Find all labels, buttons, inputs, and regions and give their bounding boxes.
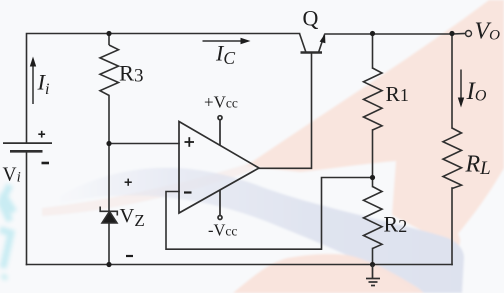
wire left column bottom — [26, 151, 28, 264]
voltage source Vi — [3, 143, 52, 151]
wire R2 bottom lead — [372, 249, 374, 265]
node junction VO — [449, 31, 454, 36]
wire zener to bottom rail — [108, 223, 110, 265]
wire top rail left — [27, 34, 300, 144]
zener diode VZ — [100, 207, 117, 224]
op-amp U1 — [179, 116, 259, 220]
svg-text:Q: Q — [303, 6, 319, 31]
svg-text:R1: R1 — [386, 82, 409, 106]
transistor Q — [300, 34, 325, 53]
node junction zener bottom — [106, 262, 111, 267]
label zener plus — [125, 179, 132, 186]
resistor RL — [443, 128, 462, 189]
svg-text:R2: R2 — [384, 212, 408, 237]
node junction R3 zener opamp — [106, 141, 111, 146]
resistor R2 — [364, 187, 383, 249]
ground — [366, 265, 380, 286]
wire R1 bottom lead — [372, 130, 374, 178]
wire output column top — [451, 34, 453, 128]
current arrow Ii — [30, 57, 36, 105]
wire top rail right — [325, 33, 466, 36]
wire R3 bottom lead — [108, 101, 110, 144]
wire R1 top lead — [372, 34, 374, 69]
wire R3 to opamp plus input — [109, 143, 179, 145]
current arrow IO — [458, 70, 464, 108]
wire R2 top lead — [372, 178, 374, 187]
label battery minus — [42, 162, 50, 165]
current arrow IC — [203, 38, 251, 44]
node junction R1 R2 feedback — [370, 175, 375, 180]
resistor R1 — [364, 68, 383, 130]
terminal VO — [466, 31, 472, 37]
label op-amp minus input — [184, 191, 192, 193]
wire R3 top lead — [108, 34, 110, 46]
wire zener column — [108, 144, 110, 213]
transistor Q emitter arrow — [320, 34, 326, 44]
svg-text:+Vcc: +Vcc — [204, 93, 238, 112]
node junction R3 top — [106, 31, 111, 36]
wire bottom rail — [27, 264, 453, 266]
wire opamp output to transistor base — [259, 54, 312, 169]
wire output column bottom — [451, 188, 453, 265]
node junction R1 top — [370, 31, 375, 36]
label op-amp plus input — [185, 137, 195, 147]
label zener minus — [126, 255, 133, 257]
svg-text:-Vcc: -Vcc — [208, 221, 237, 240]
wire feedback minus input — [166, 178, 373, 250]
node junction R2 bottom — [370, 262, 375, 267]
resistor R3 — [100, 45, 119, 101]
label battery plus — [38, 131, 45, 138]
